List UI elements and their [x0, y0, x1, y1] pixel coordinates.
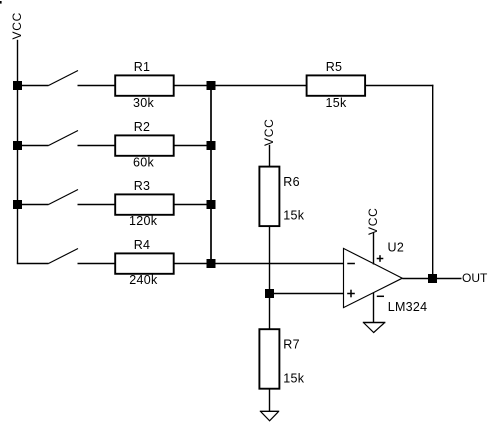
R3 value 120k	[129, 214, 158, 228]
U2 label	[388, 241, 405, 255]
svg-text:30k: 30k	[133, 96, 155, 110]
R1 label	[134, 60, 151, 74]
wire R3 to right bus	[174, 204, 212, 206]
R3 label	[134, 179, 151, 193]
wire feedback vertical to output	[432, 85, 434, 279]
wire R7 to ground	[269, 389, 271, 412]
op-amp V- pin wire	[373, 293, 375, 323]
ground (op-amp)	[363, 323, 386, 333]
svg-text:60k: 60k	[133, 156, 155, 170]
junction left bus row3	[13, 200, 22, 209]
op-amp U2	[344, 248, 403, 307]
svg-text:LM324: LM324	[388, 300, 428, 314]
wire left bus vertical	[17, 86, 19, 264]
wire R4 to right bus	[174, 263, 212, 265]
junction right bus row1	[207, 81, 216, 90]
power symbol VCC (R6)	[262, 119, 276, 167]
wire SW2 to R2	[78, 145, 116, 147]
wire SW3 to R3	[78, 204, 116, 206]
op-amp inverting input marker	[347, 263, 355, 265]
R6 value 15k	[283, 209, 305, 223]
junction left bus row2	[13, 141, 22, 150]
wire R2 to right bus	[174, 145, 212, 147]
wire output to OUT	[433, 278, 462, 280]
op-amp V+ pin marker	[377, 255, 384, 262]
wire summing node to op-amp inverting input	[212, 263, 344, 265]
resistor R3	[115, 194, 174, 214]
resistor R5	[307, 75, 366, 95]
junction right bus row3	[207, 200, 216, 209]
wire R1 to right bus	[174, 85, 212, 87]
wire SW1 to R1	[78, 85, 116, 87]
svg-text:R5: R5	[326, 60, 343, 74]
resistor R2	[115, 135, 174, 155]
wire right bus vertical	[210, 86, 212, 264]
power symbol VCC (op-amp)	[366, 208, 380, 265]
svg-text:15k: 15k	[325, 96, 347, 110]
R2 label	[134, 120, 151, 134]
svg-text:240k: 240k	[129, 273, 158, 287]
svg-text:R7: R7	[283, 337, 300, 351]
switch SW1	[49, 71, 79, 86]
resistor R1	[115, 75, 174, 95]
wire left bus corner to SW4	[17, 263, 49, 265]
resistor R6	[259, 167, 279, 227]
wire R6 to R7 divider	[269, 226, 271, 329]
svg-text:R1: R1	[134, 60, 151, 74]
R4 label	[134, 238, 151, 252]
U2 part LM324	[388, 300, 428, 314]
switch SW2	[49, 131, 79, 146]
wire row3 bus to switch	[18, 204, 49, 206]
svg-text:U2: U2	[388, 241, 405, 255]
wire row1 bus to switch	[18, 85, 49, 87]
wire divider to op-amp non-inverting input	[270, 293, 344, 295]
resistor R4	[115, 253, 174, 273]
R2 value 60k	[133, 156, 155, 170]
svg-text:R6: R6	[283, 175, 300, 189]
wire row2 bus to switch	[18, 145, 49, 147]
junction output node	[428, 274, 437, 283]
op-amp non-inverting input marker	[347, 290, 355, 298]
R5 label	[326, 60, 343, 74]
svg-text:VCC: VCC	[10, 12, 24, 39]
svg-text:R2: R2	[134, 120, 151, 134]
corner mark	[0, 1, 2, 4]
R4 value 240k	[129, 273, 158, 287]
svg-text:15k: 15k	[283, 372, 305, 386]
power symbol VCC (left)	[10, 12, 24, 85]
svg-text:VCC: VCC	[262, 119, 276, 146]
R5 value 15k	[325, 96, 347, 110]
wire SW4 to R4	[78, 263, 116, 265]
svg-text:R3: R3	[134, 179, 151, 193]
svg-text:VCC: VCC	[366, 208, 380, 235]
R7 value 15k	[283, 372, 305, 386]
op-amp V- pin marker	[377, 295, 384, 297]
switch SW4	[49, 249, 79, 264]
junction right bus row2	[207, 141, 216, 150]
svg-text:OUT: OUT	[462, 271, 488, 285]
R1 value 30k	[133, 96, 155, 110]
wire R5 to feedback corner	[365, 85, 433, 87]
R6 label	[283, 175, 300, 189]
resistor R7	[259, 329, 279, 389]
svg-text:120k: 120k	[129, 214, 158, 228]
junction right bus row4 summing node	[207, 259, 216, 268]
junction left bus row1	[13, 81, 22, 90]
wire bus to R5	[212, 85, 307, 87]
junction divider node	[265, 289, 274, 298]
R7 label	[283, 337, 300, 351]
switch SW3	[49, 190, 79, 205]
ground (R7)	[260, 411, 279, 421]
wire op-amp output	[402, 278, 432, 280]
node OUT	[462, 271, 488, 285]
svg-text:R4: R4	[134, 238, 151, 252]
svg-text:15k: 15k	[283, 209, 305, 223]
